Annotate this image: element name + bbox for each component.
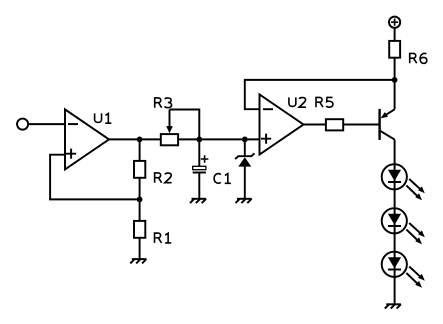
resistor R3 trimmer bbox=[161, 134, 178, 145]
wire R2 to junction bbox=[139, 178, 141, 200]
wire emitter up to node bbox=[394, 80, 396, 109]
node feedback junction bbox=[137, 197, 143, 203]
resistor R2 bbox=[134, 161, 145, 178]
wire node to R3 bbox=[140, 138, 161, 140]
wire zener to ground bbox=[244, 167, 246, 199]
node U1 output bbox=[137, 137, 143, 143]
label C1 bbox=[214, 174, 231, 184]
wire LED D3 to LED D4 bbox=[394, 233, 396, 251]
wire wiper loop to R3 right terminal bbox=[170, 110, 200, 140]
label R1 bbox=[155, 233, 172, 243]
wire C1 to ground bbox=[198, 173, 200, 199]
wire junction to R1 bbox=[139, 199, 141, 221]
resistor R1 bbox=[134, 221, 145, 238]
wire input to U1 inverting input bbox=[28, 123, 65, 125]
op-amp U1 bbox=[65, 109, 109, 169]
label U1 bbox=[95, 113, 112, 123]
resistor R5 bbox=[326, 119, 343, 130]
ground below LED chain bbox=[385, 304, 401, 308]
capacitor C1 bbox=[193, 155, 209, 172]
wire LED D4 to ground bbox=[394, 277, 396, 304]
zener diode bbox=[235, 153, 254, 166]
R3 wiper arrow bbox=[166, 110, 173, 134]
wire node to R6 bbox=[394, 58, 396, 80]
input terminal bbox=[17, 119, 28, 130]
node zener bbox=[242, 137, 248, 143]
transistor Q1 bbox=[380, 109, 395, 140]
wire node to R2 bbox=[139, 139, 141, 161]
LED D4 bbox=[382, 252, 407, 277]
power supply positive terminal bbox=[389, 17, 400, 28]
wire node to C1 bbox=[198, 139, 200, 166]
ground below R1 bbox=[130, 259, 146, 263]
node C1 bbox=[196, 137, 202, 143]
label U2 bbox=[289, 97, 306, 107]
LED D3 light arrows bbox=[406, 223, 424, 244]
LED D2 bbox=[382, 164, 407, 189]
ground below zener bbox=[236, 199, 252, 203]
wire U1 output to node bbox=[109, 138, 140, 140]
resistor R6 bbox=[389, 41, 400, 58]
wire feedback from U1 noninverting input to R1/R2 junction bbox=[50, 155, 140, 200]
op-amp U2 bbox=[260, 95, 304, 155]
wire node to zener diode bbox=[244, 139, 246, 156]
wire U2 output to R5 bbox=[304, 124, 326, 126]
wire R5 to base bbox=[343, 124, 379, 126]
LED D2 light arrows bbox=[406, 179, 424, 200]
label R5 bbox=[316, 97, 333, 107]
label R2 bbox=[155, 173, 172, 183]
node emitter R6 bbox=[392, 77, 398, 83]
LED D3 bbox=[382, 208, 407, 233]
LED D4 light arrows bbox=[406, 267, 424, 288]
label R6 bbox=[410, 53, 427, 63]
wire R1 to ground bbox=[139, 238, 141, 259]
wire R6 to supply bbox=[394, 28, 396, 41]
wire R3 right to U2 noninverting input bbox=[178, 138, 259, 140]
label R3 bbox=[155, 98, 172, 108]
wire U2 feedback from inverting input to emitter node bbox=[245, 80, 395, 109]
ground below C1 bbox=[190, 199, 206, 203]
wire collector down to LED chain bbox=[394, 140, 396, 165]
wire LED D2 to LED D3 bbox=[394, 189, 396, 208]
